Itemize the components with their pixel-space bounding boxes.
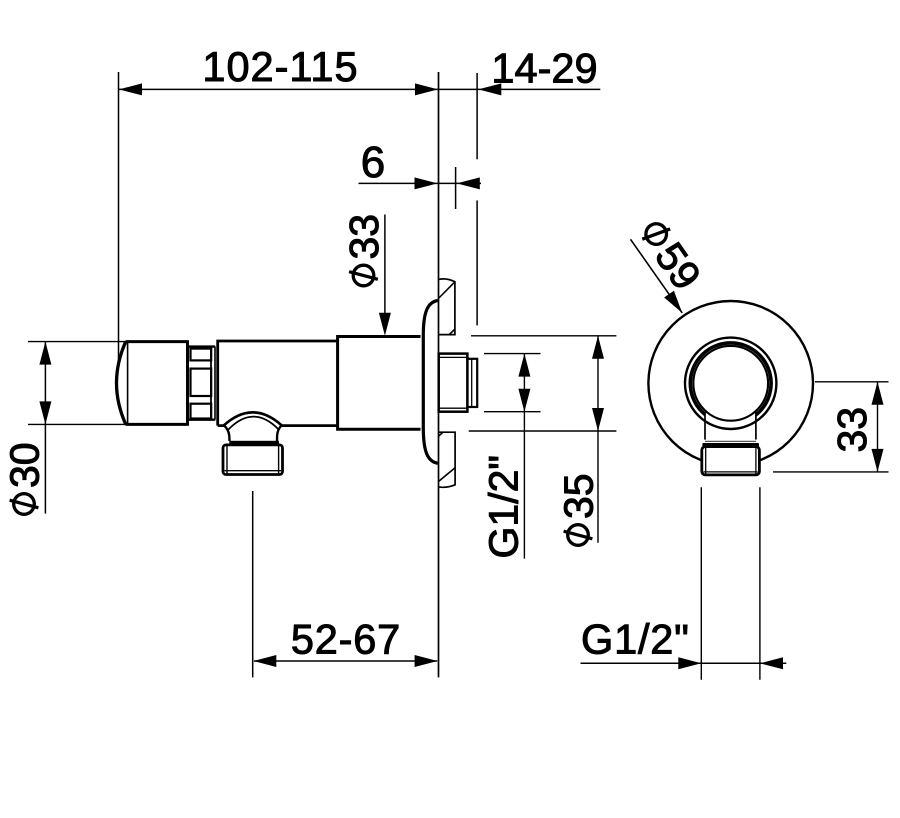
extension line left (knob face) bbox=[118, 72, 120, 364]
svg-text:14-29: 14-29 bbox=[491, 45, 597, 92]
label phi30 text bbox=[2, 442, 48, 514]
label phi59 text bbox=[631, 213, 710, 298]
extension line nipple end upper bbox=[476, 73, 478, 159]
arrow up 33 bbox=[872, 382, 884, 405]
wall hatch line top-1 bbox=[439, 282, 455, 298]
svg-text:G1/2": G1/2" bbox=[581, 616, 690, 663]
svg-text:30: 30 bbox=[2, 442, 48, 488]
svg-text:35: 35 bbox=[556, 473, 602, 519]
valve body section 1 bbox=[218, 341, 338, 426]
arrow right 52-67 bbox=[415, 655, 438, 667]
dimension line 6 bbox=[359, 182, 482, 184]
dimension G1/2 left top extension bbox=[484, 353, 541, 355]
extension line nut right front view bbox=[759, 487, 761, 680]
dimension phi30 bottom extension line bbox=[28, 423, 126, 425]
dimension phi30 top extension line bbox=[28, 341, 126, 343]
arrow right-pointing 6 bbox=[415, 177, 438, 189]
outlet boss right flare bbox=[277, 425, 282, 441]
arrow up phi35 bbox=[592, 336, 604, 359]
extension line nipple end lower bbox=[476, 200, 478, 325]
front view neck mask bbox=[705, 405, 756, 440]
wall hatch line bottom-2 bbox=[439, 468, 455, 482]
nipple relief line bottom bbox=[439, 407, 467, 409]
wall hatch block top bbox=[439, 279, 455, 335]
label 33 text bbox=[829, 407, 875, 453]
front view neck left line bbox=[704, 412, 706, 440]
arrow left-pointing 6 bbox=[457, 177, 480, 189]
outlet nut left chamfer line bbox=[226, 446, 228, 474]
outlet nut right chamfer line bbox=[278, 446, 280, 474]
arrow left 52-67 bbox=[253, 655, 276, 667]
arrow left 102-115 bbox=[119, 83, 142, 95]
nipple relief line top bbox=[439, 356, 467, 358]
wall hatch line top-2 bbox=[449, 329, 455, 334]
dimension line phi35 bbox=[597, 336, 599, 543]
label phi35 text bbox=[556, 473, 602, 545]
arrow down phi30 bbox=[39, 401, 51, 424]
front view socket outer thin circle bbox=[685, 338, 776, 429]
arrow right-pointing G1/2 bottom bbox=[678, 657, 701, 669]
dimension line phi30 bbox=[44, 342, 46, 514]
label phi59 leader line bbox=[631, 239, 683, 313]
arrow down phi35 bbox=[592, 408, 604, 431]
front view nut bottom line bbox=[704, 471, 758, 473]
arrow down G1/2 left bbox=[518, 389, 530, 412]
svg-text:52-67: 52-67 bbox=[291, 616, 401, 663]
extension line nut left front view bbox=[700, 487, 702, 680]
arrow tail G1/2 bottom bbox=[760, 662, 786, 664]
arrow up G1/2 left bbox=[518, 354, 530, 377]
outlet boss inner arch bbox=[228, 417, 279, 430]
label G1/2 left text bbox=[481, 455, 527, 558]
outlet boss left flare bbox=[224, 425, 230, 441]
collar band 1 bbox=[191, 349, 212, 361]
svg-text:33: 33 bbox=[829, 407, 875, 453]
arrow down 33 bbox=[872, 449, 884, 472]
dimension line 102-115 / 14-29 bbox=[119, 88, 600, 90]
extension line wall back (6) bbox=[455, 167, 457, 209]
dimension 33 bottom extension bbox=[773, 471, 889, 473]
front view socket inner thin circle bbox=[693, 346, 768, 421]
label phi33 leader line bbox=[384, 215, 386, 315]
svg-text:33: 33 bbox=[341, 214, 387, 260]
front view neck right line bbox=[755, 412, 757, 440]
outlet nut bottom line bbox=[225, 470, 282, 472]
wall hatch block bottom bbox=[439, 432, 456, 487]
svg-text:G1/2": G1/2" bbox=[481, 455, 527, 558]
nipple end cap bbox=[467, 359, 477, 407]
bonnet collar rear rim line bbox=[210, 347, 212, 420]
arrow right 102-115 bbox=[415, 83, 438, 95]
valve knob body bbox=[126, 340, 188, 426]
front view nut left line bbox=[705, 448, 707, 474]
dimension line G1/2 left bbox=[523, 354, 525, 559]
wall surface line bbox=[438, 72, 440, 677]
dimension line G1/2 bottom bbox=[581, 662, 761, 664]
arrow up phi30 bbox=[39, 342, 51, 365]
dimension line 33 bbox=[877, 382, 879, 472]
front view joint band bbox=[702, 443, 759, 447]
outlet joint band bbox=[229, 441, 279, 445]
valve knob face line bbox=[127, 343, 129, 423]
arrow down phi33 bbox=[379, 313, 391, 336]
bonnet collar rear edge line bbox=[214, 347, 216, 420]
label phi33 text bbox=[341, 214, 387, 286]
dimension phi35 top extension bbox=[471, 335, 616, 337]
arrow left-pointing G1/2 bottom bbox=[760, 657, 783, 669]
outlet nut bbox=[223, 445, 283, 475]
front view joint gray line bbox=[705, 440, 756, 442]
front view flange circle phi59 bbox=[648, 301, 813, 466]
wall hatch line bottom-1 bbox=[439, 432, 443, 436]
collar band 3 bbox=[191, 404, 212, 419]
dimension phi35 bottom extension bbox=[469, 430, 617, 432]
dimension line 52-67 bbox=[254, 660, 437, 662]
front view socket ring thick bbox=[690, 343, 771, 424]
nipple end cap line bbox=[471, 359, 473, 407]
dimension G1/2 left bottom extension bbox=[484, 411, 541, 413]
bonnet collar outline bbox=[188, 347, 216, 420]
collar band 2 bbox=[191, 369, 212, 396]
valve knob front arc bbox=[117, 342, 126, 424]
outlet boss outer arch bbox=[224, 412, 282, 425]
svg-text:102-115: 102-115 bbox=[202, 43, 358, 90]
dimension 33 top extension bbox=[815, 381, 889, 383]
front view nut bbox=[702, 447, 760, 475]
front view nut right line bbox=[755, 448, 757, 474]
extension line outlet centre bbox=[252, 491, 254, 677]
valve body section 2 (phi33) bbox=[338, 337, 421, 430]
arrow left 14-29 bbox=[478, 83, 501, 95]
arrow phi59 bbox=[664, 291, 682, 313]
escutcheon flange profile bbox=[423, 301, 438, 464]
svg-text:6: 6 bbox=[361, 138, 385, 187]
wall nipple body bbox=[439, 354, 468, 412]
